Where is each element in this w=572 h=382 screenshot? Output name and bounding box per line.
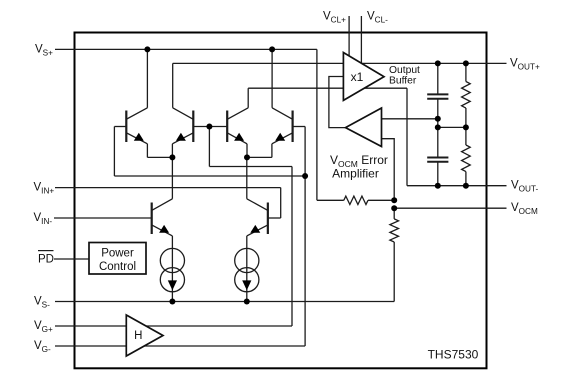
- svg-text:Buffer: Buffer: [389, 76, 417, 87]
- svg-text:PD: PD: [38, 254, 54, 266]
- svg-text:Amplifier: Amplifier: [332, 167, 379, 181]
- svg-text:Output: Output: [389, 65, 420, 76]
- svg-text:H: H: [134, 330, 142, 342]
- svg-text:Power: Power: [101, 247, 134, 259]
- svg-text:THS7530: THS7530: [428, 348, 479, 362]
- svg-text:x1: x1: [351, 70, 364, 84]
- svg-text:Control: Control: [99, 261, 136, 273]
